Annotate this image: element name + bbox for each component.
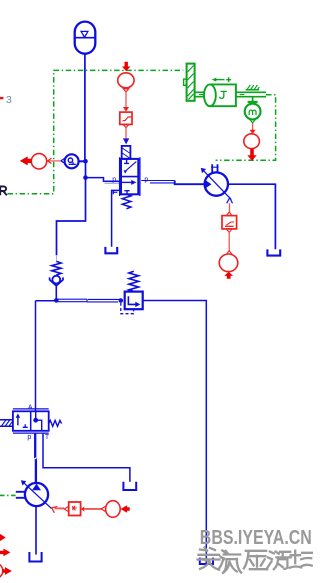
- svg-text:p: p: [144, 176, 148, 183]
- variable displacement diagonal arrow: [204, 171, 231, 200]
- signal wire into valve solenoid: [125, 128, 127, 139]
- solenoid hatched: [0, 420, 13, 426]
- svg-text:A: A: [28, 404, 33, 411]
- red saturation block2: [222, 216, 237, 229]
- red out triangle below box2: [226, 229, 232, 232]
- spring above: [129, 271, 139, 291]
- tank under valve: [105, 247, 117, 253]
- right cell bent path: [36, 411, 42, 431]
- relief valve: [121, 271, 143, 313]
- red arrowhead mid: [123, 107, 129, 112]
- top cell diagonal arrow: [125, 162, 136, 172]
- red in triangle above circle2: [226, 251, 232, 255]
- red signal wire to pump: [55, 507, 65, 509]
- green shaft right: [236, 92, 266, 96]
- solenoid: [122, 146, 131, 159]
- red wire sensor to circle: [252, 123, 254, 130]
- tank under pump: [29, 552, 41, 562]
- node junction branch: [83, 175, 88, 180]
- wire motor right to tank: [228, 184, 275, 249]
- speed sensor w: [245, 97, 261, 123]
- bottom cell T: [124, 191, 129, 194]
- svg-text:BBS.IYEYA.CN: BBS.IYEYA.CN: [200, 526, 312, 549]
- green arrows above J: [212, 77, 231, 82]
- rotary load J: [204, 84, 236, 106]
- node junction sensor: [83, 159, 88, 164]
- red circle right top: [244, 134, 260, 149]
- wire relief out to tank: [143, 301, 207, 565]
- green shaft left: [195, 92, 205, 96]
- red circle below motor: [219, 254, 238, 272]
- bearing hatch above shaft: [246, 85, 260, 90]
- green boundary pump shaft stub: [0, 494, 17, 496]
- spring right: [49, 420, 62, 426]
- wire bus double to relief: [56, 299, 120, 302]
- signal wire to motor: [229, 203, 231, 212]
- hydraulic motor M1: [201, 164, 232, 199]
- watermark chinese: [198, 548, 312, 573]
- left cell blocked T: [23, 424, 28, 427]
- green wall (fixed body): [184, 64, 195, 101]
- tank bottom right: [200, 558, 213, 564]
- T port tick: [113, 190, 117, 194]
- label R: [0, 186, 7, 195]
- wire main vertical down: [57, 161, 86, 255]
- green supercomponent boundary left: [8, 70, 184, 193]
- pilot junction dot: [119, 298, 124, 303]
- cut-off red arrow 1: [0, 534, 6, 542]
- bold red arrow left (port): [20, 156, 32, 165]
- signal wire down to circle: [228, 232, 230, 250]
- red circle bottom: [106, 501, 121, 518]
- shaft left: [16, 492, 25, 498]
- pump P1: [16, 480, 52, 508]
- bottom cell flow path: [121, 181, 132, 183]
- red out triangle below circle: [123, 89, 129, 92]
- shaft up: [212, 164, 217, 173]
- label 3 top left: [0, 97, 3, 99]
- blue arrowhead into solenoid: [123, 138, 129, 144]
- red open triangle at circle3: [101, 506, 105, 511]
- valve body: [121, 159, 138, 194]
- svg-text:T: T: [45, 434, 50, 441]
- red source circle top: [118, 73, 134, 88]
- label J: [220, 91, 227, 98]
- diagonal arrow: [24, 483, 52, 509]
- svg-text:p: p: [27, 434, 31, 441]
- spring bottom: [122, 194, 131, 209]
- bold red arrow into circle right: [121, 505, 130, 513]
- wire bus down to valve2: [35, 301, 37, 411]
- svg-text:p: p: [112, 176, 116, 183]
- signal wire down: [125, 92, 127, 108]
- tank right of motor: [267, 249, 280, 255]
- servo valve V1: [120, 146, 140, 209]
- top cell: blocked T: [124, 160, 129, 164]
- svg-text:3: 3: [6, 94, 12, 106]
- wire valve T to tank: [112, 190, 121, 246]
- bus junction dot: [54, 298, 59, 303]
- red arrowhead into k: [81, 507, 84, 512]
- pressure sensor U-p: [61, 154, 84, 168]
- red arrowhead down: [250, 130, 256, 134]
- side rails: [120, 157, 140, 196]
- red out triangle below box: [123, 125, 129, 128]
- red open arrowhead at pump: [52, 506, 58, 512]
- tank under T line: [123, 482, 136, 490]
- wire T to tank: [43, 433, 130, 482]
- red chain: bold down arrow into circle: [122, 62, 131, 71]
- accumulator: [75, 22, 96, 54]
- wire bus left: [36, 300, 57, 302]
- red signal wire from circle: [84, 508, 101, 510]
- wire P to pump: [34, 433, 36, 458]
- wire valve right to motor (double): [141, 181, 204, 185]
- wire branch to valve left port: [86, 178, 120, 182]
- wire pump to tank: [35, 506, 37, 554]
- red signal sink circle: [31, 154, 51, 169]
- directional valve V2: [0, 409, 62, 433]
- pilot dashed: [121, 303, 134, 314]
- gain block k: [64, 502, 80, 516]
- left cell arrow up: [17, 417, 19, 426]
- wire accumulator to junction: [84, 54, 86, 161]
- green boundary right: [216, 95, 276, 160]
- cut-off red circle + arrow 3: [0, 563, 3, 579]
- check valve: [50, 261, 63, 300]
- red in triangle above box2: [226, 212, 232, 216]
- blue arrowhead motor control: [227, 198, 233, 204]
- bold red up arrow below circle2: [224, 272, 233, 279]
- bold red down arrow crossing boundary: [247, 149, 256, 161]
- red saturation block: [120, 112, 132, 124]
- signal wire sensor to red sink: [47, 160, 60, 162]
- cut-off red arrow 2: [0, 549, 10, 557]
